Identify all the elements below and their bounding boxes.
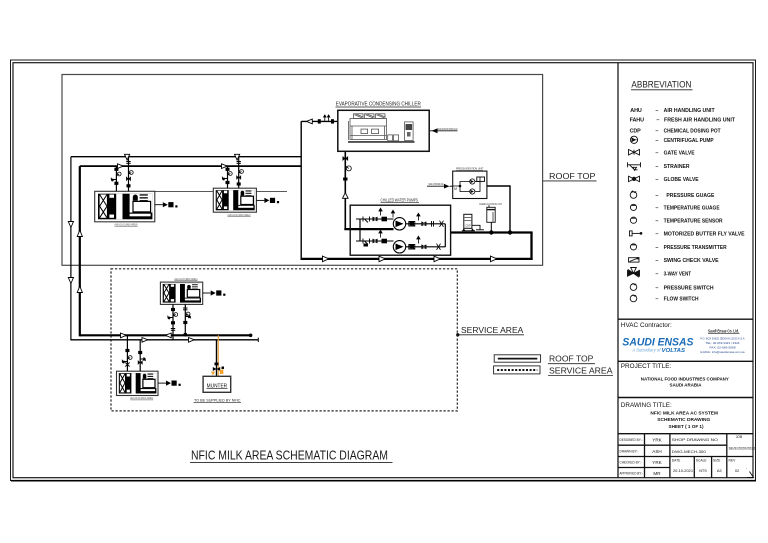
AHU-3 service area [160,277,225,305]
svg-text:TO BE SUPPLIED BY NFIC: TO BE SUPPLIED BY NFIC [194,397,241,402]
svg-text:AHU-01-01 (MILK AREA): AHU-01-01 (MILK AREA) [115,222,138,226]
wire: pump 1 suction branch [356,218,394,220]
svg-text:NTS: NTS [699,468,707,473]
symbol globe valve [629,176,640,182]
wire: munter return drop (orange) [217,335,219,376]
wire: riser chiller inlet to supply header [300,121,302,259]
valve cluster on chiller inlet: flex connector [318,119,321,123]
AHU-4 service area [117,371,181,400]
svg-text:–: – [655,271,658,277]
symbol temperature gauge [630,204,636,210]
svg-text:HVAC Contractor:: HVAC Contractor: [621,322,672,329]
valves AHU-2 return branch [236,162,243,186]
svg-text:PRESSURE GUAGE: PRESSURE GUAGE [666,193,714,199]
svg-text:STRAINER: STRAINER [664,164,690,170]
valves AHU-1 supply branch [111,168,121,185]
svg-text:NFIC MILK AREA AC SYSTEM: NFIC MILK AREA AC SYSTEM [650,411,718,416]
svg-text:TEMPERATURE GUAGE: TEMPERATURE GUAGE [664,206,720,212]
svg-text:–: – [655,245,658,251]
svg-text:FRESH AIR HANDLING UNIT: FRESH AIR HANDLING UNIT [664,117,736,123]
svg-text:FAHU: FAHU [630,117,644,123]
strainer on pump 2 suction [363,239,370,245]
svg-text:TEMPERATURE SENSOR: TEMPERATURE SENSOR [664,218,723,224]
svg-text:SAUDI ENSAS: SAUDI ENSAS [622,336,693,348]
drawing title text [621,402,718,429]
AHU-1 roof [95,191,178,226]
Saudi Ensas address block [701,329,745,354]
svg-text:Saudi Ensas Co. Ltd.: Saudi Ensas Co. Ltd. [708,329,739,334]
vent on pump P-1 casing [391,210,394,217]
chiller return-from-FAHU leader [430,127,458,133]
wire: return riser right [530,233,532,261]
wire: pump suction line [344,228,393,230]
symbol centrifugal pump [630,136,637,143]
svg-text:AHU-01-03 (MILK AREA): AHU-01-03 (MILK AREA) [174,277,197,281]
gate valve on pump 1 suction [373,217,378,222]
svg-text:–: – [655,108,658,114]
wire: chiller inlet pipe [301,120,338,122]
pressurization unit box [453,171,487,198]
flow arrow down on supply riser 1 [68,222,73,228]
symbol gate valve [629,150,640,156]
svg-text:ROOF TOP: ROOF TOP [549,171,596,181]
svg-text:MAKE UP WATER LINE: MAKE UP WATER LINE [429,182,444,186]
svg-text:SERVICE AREA: SERVICE AREA [549,366,613,375]
valves AHU-3 return branch [183,308,191,337]
gate valve on pump 2 discharge [421,244,426,249]
svg-text:AHU: AHU [630,108,642,114]
svg-text:PRESSURE SWITCH: PRESSURE SWITCH [664,285,714,291]
svg-text:MR: MR [653,471,661,476]
pu pump 2 [470,189,475,194]
svg-text:SCHEMATIC DRAWING: SCHEMATIC DRAWING [657,417,710,422]
svg-text:DESIGNED BY:-: DESIGNED BY:- [620,438,643,442]
svg-text:SHEET ( 1 OF 1): SHEET ( 1 OF 1) [669,424,704,429]
svg-text:AHU-01-02 (MILK AREA): AHU-01-02 (MILK AREA) [228,213,251,217]
sheet border outer [11,60,756,481]
project title text [621,363,729,387]
svg-text:–: – [655,164,658,170]
vent on pump 2 discharge [417,236,420,243]
svg-text:–: – [655,206,658,212]
svg-text:SCALE: SCALE [696,458,708,462]
flow arrow on chiller inlet pipe [307,119,313,124]
svg-text:SE/E/2020/2021: SE/E/2020/2021 [729,446,756,450]
svg-text:GLOBE VALVE: GLOBE VALVE [664,177,699,183]
node: upper header end cap [249,334,253,338]
valve cluster on chiller inlet: flex connector 2 [331,119,334,123]
tank outlet pipe [472,225,484,230]
valves AHU-4 return branch [138,351,146,365]
wire: CHW return top header [80,165,301,167]
svg-text:NATIONAL FOOD INDUSTRIES COMPA: NATIONAL FOOD INDUSTRIES COMPANY [641,376,729,381]
svg-text:CDP: CDP [630,128,642,134]
pu pump 1 [470,179,475,184]
svg-text:GATE VALVE: GATE VALVE [664,150,695,156]
wire: service area upper header [80,334,251,336]
node label ROOF TOP [543,171,597,181]
chiller body [349,114,414,141]
symbol temperature sensor [630,217,636,223]
valve cluster at munter inlet [215,363,219,366]
svg-text:–: – [655,297,658,303]
pump suction manifold [359,219,361,241]
internal piping [453,177,480,192]
pu junction dot [459,185,462,188]
pumps box [350,205,450,255]
pu tank [477,177,485,181]
pump P-2 [393,241,405,253]
svg-text:–: – [655,258,658,264]
flow arrow down on supply riser 2 [68,278,73,284]
symbol pressure gauge [630,191,637,198]
strainer on pump 1 suction [363,217,370,223]
svg-text:–: – [655,128,658,134]
svg-text:REV: REV [729,458,737,462]
svg-text:FLOW SWITCH: FLOW SWITCH [664,297,699,303]
svg-text:DRAWN BY:-: DRAWN BY:- [620,449,639,453]
Saudi Ensas logo [622,336,693,354]
svg-text:P.O. BOX 50625 JEDDAH 21533 K.: P.O. BOX 50625 JEDDAH 21533 K.S.A [701,336,745,340]
svg-text:PRESSURE TRANSMITTER: PRESSURE TRANSMITTER [664,245,727,251]
folded corner mark [747,472,754,478]
title block table grid [618,434,753,478]
project title section divider [618,360,753,362]
abbreviation heading [631,80,693,90]
svg-text:3-WAY VENT: 3-WAY VENT [664,271,692,277]
svg-text:CDP: CDP [465,224,471,228]
wire: dosing pot drop [490,222,492,232]
wire: AHU-3 branch pipes [173,304,185,339]
vent on pump 1 [379,208,382,215]
wire: CHW supply top header [71,156,301,158]
flow arrows on bottom return header [323,256,329,262]
svg-text:CHEMICAL DOSING UNIT: CHEMICAL DOSING UNIT [479,202,502,206]
svg-text:–: – [656,117,659,123]
svg-text:TEL: 02-669 3423 / 3424: TEL: 02-669 3423 / 3424 [706,341,740,345]
symbol motorized butterfly valve [630,231,642,236]
drawing title section divider [618,397,753,399]
wire: pump 1 discharge [406,223,446,225]
svg-text:': ' [746,467,747,472]
flex connector on chiller outlet drop [343,178,347,181]
pump P-1 [393,218,405,230]
svg-text:ROOF TOP: ROOF TOP [549,355,593,364]
chiller box [338,110,429,151]
symbol strainer [628,162,641,170]
wire: pressurization feed line [487,186,510,233]
HVAC contractor section divider [618,318,753,320]
main diagram title [190,449,393,463]
flow arrows on service headers [121,333,127,338]
svg-text:CHILLED WATER PUMPS: CHILLED WATER PUMPS [381,197,419,202]
wire: AHU-1 branch pipes [116,157,128,192]
svg-text:A3: A3 [717,468,722,473]
symbol 3-way vent [628,268,640,278]
gate valve on pump 2 suction [373,239,378,244]
AHU-2 roof [213,188,279,217]
wire: left return riser [80,166,81,335]
flow arrow up on chiller outlet drop [343,193,349,199]
svg-text:20-10-2021: 20-10-2021 [673,468,693,473]
svg-text:M: M [454,187,457,191]
title block column divider [617,63,619,478]
valve on chiller outlet drop: gate valve [343,156,349,161]
valves AHU-3 supply branch [168,308,178,330]
svg-text:FAX: 02-669 5568: FAX: 02-669 5568 [710,345,736,349]
junction dot dosing pot [489,230,493,234]
svg-text:SAUDI ARABIA: SAUDI ARABIA [670,382,703,387]
legend service area line sample [494,366,614,376]
symbol flow switch [630,295,637,302]
check valve on pump 1 discharge [409,222,415,227]
munter box [203,376,231,392]
junction dot pressurization [508,230,512,234]
roof top area box [62,75,543,266]
wire: pump suction header [450,231,533,233]
makeup water leader [427,182,453,188]
svg-text:–: – [655,285,658,291]
dosing pot [487,207,495,222]
svg-text:–: – [655,232,658,238]
sheet border inner [13,63,753,478]
vent on pump 2 [379,230,382,237]
union cross on pump 2 discharge [437,244,441,250]
svg-text:A Subsidiary of: A Subsidiary of [631,348,661,353]
svg-text:DRAWING TITLE:: DRAWING TITLE: [621,402,672,409]
svg-text:02: 02 [735,468,739,473]
svg-text:JOB: JOB [736,435,743,439]
table cell texts [620,435,756,476]
wire: AHU-2 branch pipes [228,157,239,189]
svg-text:CHW RETURN FROM FAHU: CHW RETURN FROM FAHU [438,127,458,131]
wire: pump 2 suction branch [356,240,394,242]
svg-text:SIZE: SIZE [713,458,721,462]
valves AHU-2 supply branch [222,168,232,184]
svg-text:SHOP DRAWING NO: SHOP DRAWING NO [672,438,719,442]
service area dashed box [111,269,457,411]
gate valve on pump 1 discharge [421,221,426,226]
svg-text:YRK: YRK [652,460,662,465]
check valve on pump 2 discharge [409,245,415,250]
svg-text:NFIC MILK AREA SCHEMATIC DIAGR: NFIC MILK AREA SCHEMATIC DIAGRAM [191,449,388,463]
wire: service area lower header [71,339,258,341]
air vent symbol on chiller inlet [324,115,330,122]
svg-text:–: – [655,150,658,156]
svg-text:APPROVED BY:-: APPROVED BY:- [620,472,644,476]
flow arrows on top headers [125,154,130,160]
symbol pressure transmitter [630,244,636,250]
svg-text:CENTRIFUGAL PUMP: CENTRIFUGAL PUMP [664,138,714,144]
expansion tank [464,214,472,228]
valves AHU-4 supply branch [122,349,132,367]
svg-text:AIR HANDLING UNIT: AIR HANDLING UNIT [664,108,716,114]
flex on pump 2 suction [382,239,388,244]
svg-text:AHU-01-04 (MILK AREA): AHU-01-04 (MILK AREA) [130,396,153,400]
svg-text:ABBREVIATION: ABBREVIATION [631,80,691,90]
svg-text:–: – [655,193,658,199]
valves AHU-1 return branch [126,162,133,188]
svg-text:–: – [655,218,658,224]
svg-text:VOLTAS: VOLTAS [662,348,686,354]
symbol swing check valve [629,257,640,262]
flex on pump 1 suction [382,217,388,222]
bottom shadow line [11,480,756,482]
svg-text:MOTORIZED BUTTER FLY VALVE: MOTORIZED BUTTER FLY VALVE [664,232,745,238]
svg-text:CHECKED BY:-: CHECKED BY:- [620,461,642,465]
wire: pump 2 discharge [406,246,446,248]
wire: AHU-4 branch pipes [127,335,140,371]
svg-text:PROJECT TITLE:: PROJECT TITLE: [621,363,672,370]
symbol pressure switch [630,284,637,291]
vent on pump 1 discharge [417,213,420,220]
union ticks on pump 1 discharge [432,221,434,227]
node: lower header end tick [257,338,259,342]
flow arrow up on return riser 2 [77,286,82,292]
thermometer on chiller outlet drop [346,166,351,171]
node label SERVICE AREA [456,325,524,337]
svg-text:PRESSURIZATION UNIT: PRESSURIZATION UNIT [456,167,484,171]
svg-text:SERVICE AREA: SERVICE AREA [461,325,524,335]
svg-text:DWG-MECH-300: DWG-MECH-300 [672,450,706,454]
wire: duct reference line behind AHUs [95,191,287,193]
svg-text:–: – [655,138,658,144]
wire: pump discharge riser [444,224,446,247]
wire: munter supply drop (black) [216,340,218,377]
legend roof top line sample [494,355,595,364]
flow arrow up on return riser 1 [77,230,82,236]
wire: left supply riser [71,157,72,340]
svg-text:CHEMICAL DOSING POT: CHEMICAL DOSING POT [664,128,722,134]
wire: bottom return header [301,258,533,260]
svg-text:YRK: YRK [652,438,662,443]
wire: chiller outlet drop [344,151,346,229]
svg-text:ASH: ASH [652,449,661,454]
svg-text:SWING CHECK VALVE: SWING CHECK VALVE [664,258,719,264]
svg-text:–: – [655,177,658,183]
svg-text:E-MAIL: info@saudiensas.com.sa: E-MAIL: info@saudiensas.com.sa [701,350,745,354]
svg-text:DATE: DATE [672,458,681,462]
